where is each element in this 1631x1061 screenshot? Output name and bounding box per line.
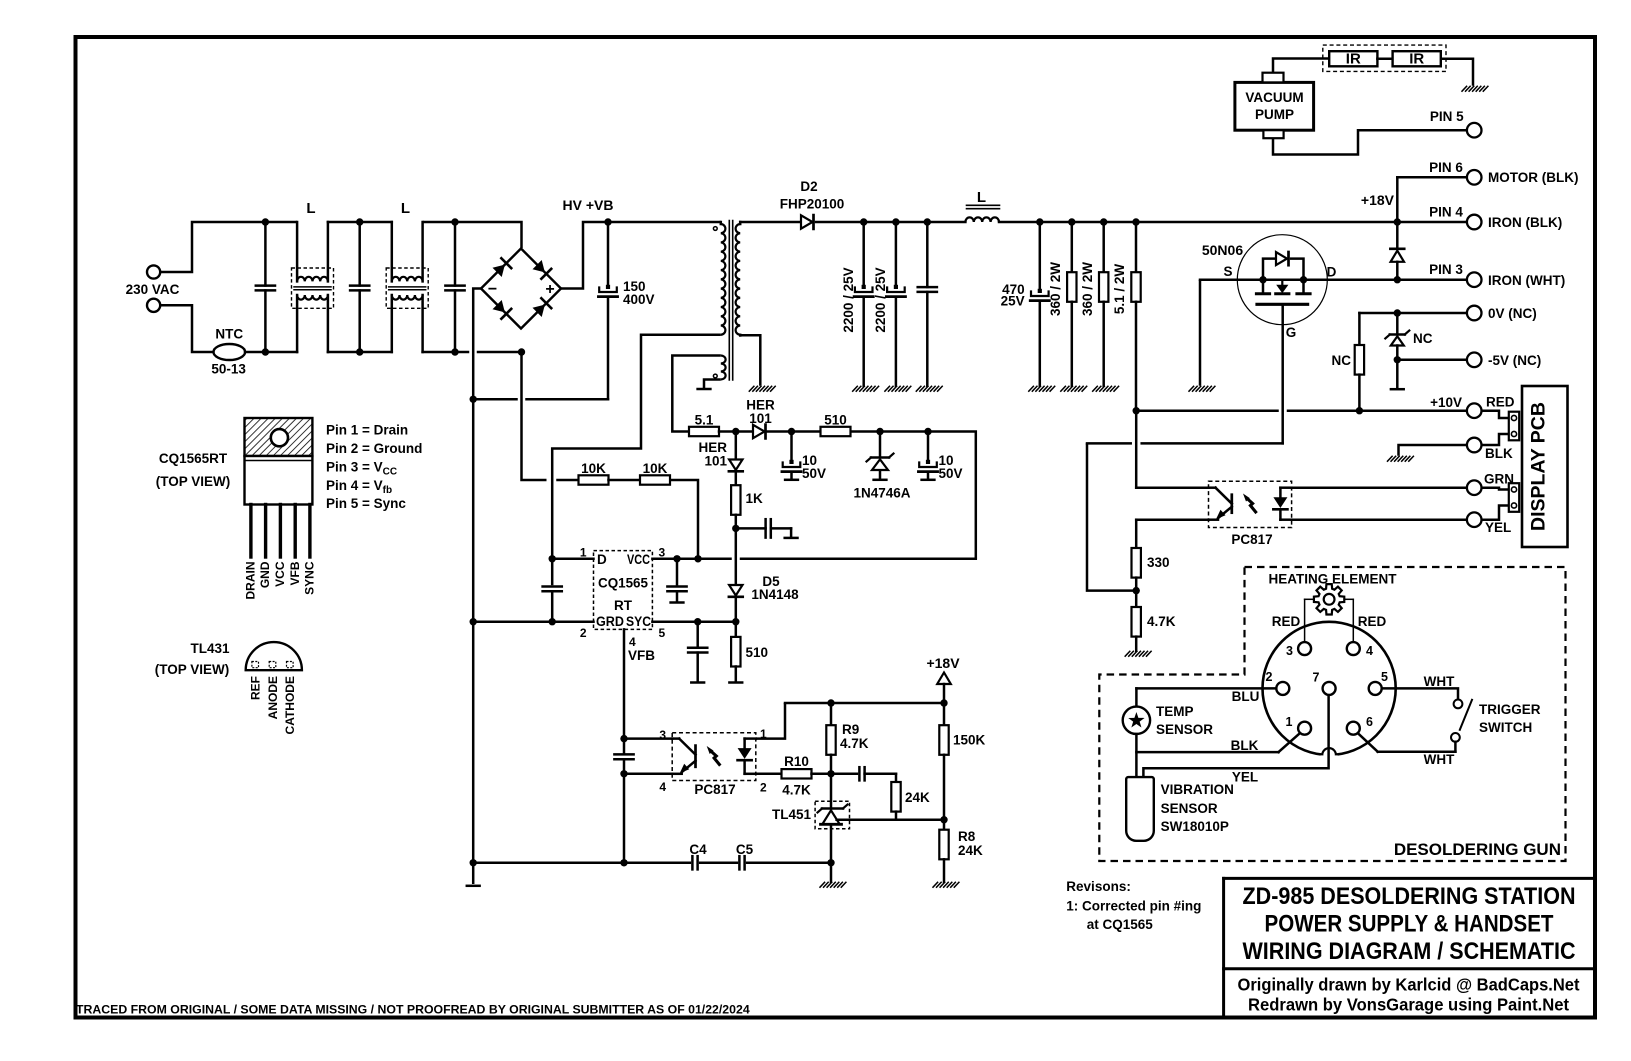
label HER 101 horizontal	[746, 398, 775, 427]
label CQ1565RT TOP VIEW	[156, 451, 231, 489]
wire L to 18V node	[999, 218, 1401, 225]
ground 2200 second	[885, 386, 911, 391]
svg-text:2: 2	[1266, 670, 1273, 684]
vacuum pump box	[1235, 82, 1314, 130]
label PIN 6	[1429, 160, 1463, 175]
label 360 2W first	[1048, 262, 1063, 316]
wire secondary top to D2	[740, 221, 801, 224]
svg-text:L: L	[401, 200, 410, 217]
terminal 0V	[1467, 306, 1482, 321]
label D5 1N4148	[751, 574, 799, 602]
wire bridge plus to HV rail	[561, 218, 721, 288]
wire 510 to Vcc corner	[851, 428, 976, 559]
svg-text:PIN 6: PIN 6	[1429, 160, 1463, 175]
resistor 10K first	[579, 475, 609, 484]
wire BLK jog	[1482, 434, 1509, 445]
wire BLK temp sensor to pin1	[1136, 733, 1299, 777]
terminal PIN4	[1467, 215, 1482, 230]
wire bridge minus down	[470, 289, 482, 885]
svg-text:4.7K: 4.7K	[782, 783, 811, 798]
MOSFET body diode	[1263, 252, 1304, 280]
gun pin 7	[1323, 682, 1336, 695]
resistor 330	[1132, 548, 1141, 591]
label TEMP SENSOR	[1156, 704, 1213, 737]
svg-text:50-13: 50-13	[211, 362, 246, 377]
svg-text:NC: NC	[1413, 331, 1433, 346]
svg-text:VCC: VCC	[273, 561, 287, 587]
svg-text:FHP20100: FHP20100	[780, 197, 845, 212]
label PC817 controller side	[694, 782, 735, 797]
svg-text:0V (NC): 0V (NC)	[1488, 306, 1537, 321]
ground stub cap10 first	[785, 479, 798, 482]
svg-text:PIN 3: PIN 3	[1429, 262, 1463, 277]
wire bottom rail segment 2	[328, 351, 392, 354]
wire GRD pin2	[473, 620, 593, 623]
svg-text:VFB: VFB	[288, 561, 302, 585]
svg-text:PIN 4: PIN 4	[1429, 205, 1463, 220]
label D2	[800, 179, 817, 194]
CQ1565RT package tab	[245, 418, 313, 456]
capacitor 10 50V second	[918, 432, 937, 479]
label NC zener	[1413, 331, 1433, 346]
diode HER101 horizontal	[753, 425, 766, 439]
resistor 360 2W first	[1067, 222, 1076, 386]
TL431 pin labels	[249, 676, 298, 734]
label 24K comp	[905, 790, 930, 805]
svg-text:HV +VB: HV +VB	[563, 197, 614, 213]
capacitor 2200 25V first	[854, 222, 873, 386]
label 360 2W second	[1080, 262, 1095, 316]
capacitor 2200 25V second	[886, 222, 905, 386]
svg-text:VFB: VFB	[628, 648, 655, 663]
wire WHT pin5 to switch	[1382, 688, 1458, 699]
terminal PIN3	[1467, 272, 1482, 287]
label 0V NC	[1488, 306, 1537, 321]
label HEATING ELEMENT	[1269, 572, 1398, 587]
label 330	[1147, 555, 1170, 570]
terminal +10V RED	[1467, 403, 1482, 418]
transformer secondary winding	[736, 222, 741, 336]
transformer core	[729, 221, 732, 381]
svg-text:1: Corrected pin #ing: 1: Corrected pin #ing	[1066, 899, 1201, 914]
wire between IR	[1377, 57, 1392, 60]
svg-text:D2: D2	[800, 179, 817, 194]
label D	[1327, 265, 1337, 280]
connector block GRN YEL	[1509, 483, 1519, 512]
svg-text:REF: REF	[249, 676, 263, 700]
svg-text:RED: RED	[1358, 614, 1387, 629]
ground 470	[1029, 386, 1055, 391]
resistor 10K second	[640, 475, 670, 484]
wire drain pin1	[549, 555, 594, 562]
svg-text:(TOP VIEW): (TOP VIEW)	[155, 662, 230, 677]
wire top rail segment 3 to bridge top	[423, 222, 522, 248]
wire D2 to L	[816, 218, 965, 225]
svg-text:Revisons:: Revisons:	[1066, 879, 1131, 894]
label IR second	[1409, 51, 1424, 68]
svg-text:4: 4	[629, 635, 636, 649]
svg-text:−: −	[488, 281, 497, 298]
svg-text:SWITCH: SWITCH	[1479, 720, 1532, 735]
label HV +VB	[563, 197, 614, 213]
svg-text:5: 5	[659, 626, 666, 640]
svg-text:L: L	[306, 200, 315, 217]
svg-text:510: 510	[746, 645, 769, 660]
label 5.1	[695, 413, 714, 428]
wire HER101 to 510	[766, 428, 821, 435]
label WHT top	[1424, 674, 1455, 689]
wire pump to IR	[1273, 59, 1329, 73]
svg-text:D: D	[1327, 265, 1337, 280]
svg-text:1N4148: 1N4148	[751, 587, 799, 602]
dashed box IR	[1323, 45, 1446, 71]
label 5.1 2W	[1112, 264, 1127, 315]
wire YEL to pin7	[1143, 695, 1328, 777]
label RED	[1486, 395, 1515, 410]
label BLK gun	[1231, 738, 1259, 753]
svg-text:+: +	[545, 281, 554, 298]
capacitor C5	[739, 856, 744, 869]
label +18V right	[1361, 192, 1395, 208]
label 50-13	[211, 362, 246, 377]
svg-text:2200 / 25V: 2200 / 25V	[873, 267, 888, 332]
thermistor NTC 50-13	[214, 344, 246, 360]
resistor 1K	[731, 485, 740, 515]
label VACUUM PUMP	[1245, 90, 1303, 122]
gun connector circle	[1263, 622, 1396, 766]
wire 0V line	[1359, 309, 1467, 316]
wire primary bottom to drain net	[552, 335, 721, 586]
svg-text:R10: R10	[784, 754, 809, 769]
gun pin 6	[1347, 722, 1360, 735]
terminal 230VAC line2	[147, 299, 160, 312]
wire opto2 collector to VFB	[624, 737, 672, 740]
svg-text:230 VAC: 230 VAC	[126, 282, 180, 297]
svg-text:50V: 50V	[802, 466, 826, 481]
capacitor 10 50V first	[782, 432, 801, 479]
resistor R9 4.7K	[826, 703, 835, 774]
label 510 aux	[824, 413, 847, 428]
svg-text:5.1: 5.1	[695, 413, 714, 428]
wire YEL jog	[1482, 506, 1509, 520]
pin list text	[326, 423, 422, 512]
capacitor Vcc snubber horizontal	[736, 519, 791, 537]
label 510 SYC	[746, 645, 769, 660]
IC CQ1565RT dashed box	[594, 551, 653, 630]
svg-text:MOTOR (BLK): MOTOR (BLK)	[1488, 170, 1579, 185]
label IRON BLK	[1488, 215, 1562, 230]
label PIN 5	[1430, 109, 1464, 124]
capacitor comp	[859, 767, 896, 782]
svg-text:PC817: PC817	[1231, 532, 1272, 547]
wire bridge bottom to 10K chain	[522, 352, 547, 480]
label bridge minus	[488, 281, 497, 298]
gun pin 5	[1369, 682, 1382, 695]
svg-text:IRON (BLK): IRON (BLK)	[1488, 215, 1562, 230]
svg-text:NC: NC	[1332, 353, 1352, 368]
wire IR to ground	[1441, 59, 1473, 86]
svg-text:4: 4	[1366, 644, 1373, 658]
resistor 5.1 2W	[1131, 222, 1140, 411]
wire GRN jog	[1482, 488, 1509, 490]
wire 10K chain left	[558, 479, 579, 482]
capacitor SYC	[688, 622, 707, 682]
svg-text:BLK: BLK	[1231, 738, 1259, 753]
IC pin numbers	[580, 546, 666, 641]
svg-text:ZD-985 DESOLDERING STATION: ZD-985 DESOLDERING STATION	[1243, 883, 1576, 910]
temp sensor	[1123, 707, 1150, 734]
label TRIGGER SWITCH	[1479, 702, 1541, 735]
svg-text:DRAIN: DRAIN	[244, 562, 258, 600]
svg-text:PIN 5: PIN 5	[1430, 109, 1464, 124]
wire WHT pin6 to switch	[1359, 734, 1456, 752]
TL431 package	[246, 642, 302, 670]
MOSFET 50N06 body circle	[1237, 235, 1327, 325]
ground stub cap10 second	[922, 479, 935, 482]
transformer primary winding	[713, 222, 725, 335]
ground stub bottom-left	[467, 885, 480, 888]
diode pin4 pin3	[1390, 222, 1404, 280]
pump bottom tab	[1263, 130, 1283, 138]
svg-text:POWER SUPPLY & HANDSET: POWER SUPPLY & HANDSET	[1265, 911, 1554, 938]
label G	[1286, 325, 1297, 340]
wire TL451 to ground	[830, 863, 833, 882]
svg-text:-5V (NC): -5V (NC)	[1488, 353, 1541, 368]
wire AC line2 to NTC	[160, 305, 213, 352]
svg-text:SENSOR: SENSOR	[1161, 801, 1218, 816]
bridge diode top-right	[533, 260, 552, 279]
wire pump to PIN5	[1273, 130, 1467, 154]
label -5V NC	[1488, 353, 1541, 368]
ground stub aux	[698, 388, 711, 391]
label 150K	[953, 733, 986, 748]
svg-text:10K: 10K	[643, 461, 668, 476]
wire SYC pin5	[652, 618, 739, 625]
label YEL	[1485, 520, 1511, 535]
MOSFET source wire to ground	[1199, 280, 1202, 386]
opto2 pin numbers	[659, 727, 767, 795]
vibration sensor body	[1126, 777, 1154, 841]
label RED left	[1272, 614, 1301, 629]
diode D2 FHP20100	[801, 215, 814, 229]
label 1N4746A	[853, 486, 910, 501]
terminal PIN6	[1467, 170, 1482, 185]
svg-text:C5: C5	[736, 842, 754, 857]
label 2200 25V second	[873, 267, 888, 332]
bridge rectifier diamond	[481, 249, 561, 329]
resistor IR first	[1329, 51, 1377, 66]
wire BLU pin2 to temp sensor	[1136, 688, 1276, 706]
svg-text:DESOLDERING GUN: DESOLDERING GUN	[1394, 840, 1561, 859]
svg-text:Redrawn by VonsGarage using Pa: Redrawn by VonsGarage using Paint.Net	[1248, 995, 1569, 1015]
svg-text:330: 330	[1147, 555, 1170, 570]
svg-text:DISPLAY PCB: DISPLAY PCB	[1528, 402, 1550, 531]
svg-text:5.1 / 2W: 5.1 / 2W	[1112, 264, 1127, 315]
svg-text:4.7K: 4.7K	[1147, 614, 1176, 629]
shunt regulator TL451	[815, 774, 849, 867]
heating element gear	[1305, 584, 1354, 642]
wire bottom rail segment 3	[423, 351, 468, 354]
credit text	[1238, 975, 1580, 1015]
svg-text:400V: 400V	[623, 292, 655, 307]
svg-text:IRON (WHT): IRON (WHT)	[1488, 273, 1565, 288]
wire 1K to node	[732, 515, 739, 532]
label DESOLDERING GUN	[1394, 840, 1561, 859]
title block box	[1224, 878, 1594, 1017]
label 10K first	[581, 461, 606, 476]
svg-text:Pin 1 = Drain: Pin 1 = Drain	[326, 423, 408, 438]
capacitor X1	[256, 218, 275, 355]
ground BLK	[1388, 456, 1414, 461]
ground 2200 first	[853, 386, 879, 391]
label 50N06	[1202, 242, 1243, 258]
wire -5V line	[1394, 356, 1467, 363]
svg-text:SYC: SYC	[626, 614, 651, 629]
svg-text:RED: RED	[1272, 614, 1301, 629]
svg-text:2: 2	[580, 626, 587, 640]
svg-text:6: 6	[1366, 715, 1373, 729]
label PIN 3	[1429, 262, 1463, 277]
wire 10V rail	[1133, 407, 1468, 414]
ground 4.7K gate	[1125, 651, 1151, 656]
svg-text:7: 7	[1313, 671, 1320, 685]
ground R8	[933, 882, 959, 887]
terminal GRN	[1467, 480, 1482, 495]
resistor 24K comp	[891, 782, 900, 812]
svg-text:Pin 5 = Sync: Pin 5 = Sync	[326, 496, 406, 511]
stub -5V	[1391, 360, 1404, 389]
label 470 25V	[1001, 282, 1025, 309]
svg-text:CQ1565RT: CQ1565RT	[159, 451, 228, 466]
label 10 50V second	[939, 453, 963, 481]
wire bottom rail jump to bridge bottom	[478, 348, 525, 355]
svg-text:(TOP VIEW): (TOP VIEW)	[156, 474, 231, 489]
wire PIN4 line	[1397, 221, 1467, 224]
common-mode choke L1	[292, 222, 334, 352]
gun pin 2	[1276, 682, 1289, 695]
label NC resistor	[1332, 353, 1352, 368]
ground 360 second	[1093, 386, 1119, 391]
label VIBRATION SENSOR SW18010P	[1161, 782, 1234, 834]
label pin4 VFB	[628, 635, 655, 663]
svg-text:D: D	[597, 552, 607, 567]
svg-text:Pin 2 = Ground: Pin 2 = Ground	[326, 441, 422, 456]
wire 18V vertical	[1396, 177, 1399, 222]
diode HER101 vertical	[729, 432, 743, 486]
svg-text:SENSOR: SENSOR	[1156, 722, 1213, 737]
svg-text:WIRING DIAGRAM / SCHEMATIC: WIRING DIAGRAM / SCHEMATIC	[1243, 938, 1576, 965]
svg-text:101: 101	[704, 454, 727, 469]
transformer aux winding	[713, 356, 725, 380]
svg-text:2: 2	[760, 781, 767, 795]
ground 360 first	[1061, 386, 1087, 391]
label PC817 display side	[1231, 532, 1272, 547]
svg-text:PUMP: PUMP	[1255, 107, 1294, 122]
wire gate drive	[1087, 306, 1283, 594]
label DISPLAY PCB	[1528, 402, 1550, 531]
label IR first	[1346, 51, 1361, 68]
wire 18V rail	[785, 699, 948, 706]
svg-text:NTC: NTC	[215, 327, 243, 342]
wire opto2 LED anode to 18V rail	[756, 703, 785, 739]
ground stub 510	[729, 681, 742, 684]
resistor 510 aux	[821, 427, 851, 436]
label R10	[784, 754, 809, 769]
label S	[1223, 264, 1232, 279]
label R10 value	[782, 783, 811, 798]
svg-text:TL431: TL431	[190, 641, 230, 656]
MOSFET channel	[1256, 280, 1310, 294]
wire 10K chain to VCC node	[670, 480, 698, 559]
resistor IR second	[1393, 51, 1441, 66]
desoldering gun dashed outline	[1099, 567, 1565, 861]
IC pin texts	[596, 552, 651, 629]
svg-text:VCC: VCC	[627, 552, 650, 567]
label HER 101 vertical	[698, 440, 727, 469]
label 4.7K gate	[1147, 614, 1176, 629]
label RED right	[1358, 614, 1387, 629]
wire ground rail C4 C5	[473, 862, 831, 865]
svg-text:S: S	[1223, 264, 1232, 279]
capacitor C4	[692, 856, 697, 869]
svg-text:4: 4	[659, 780, 666, 794]
label bridge plus	[545, 281, 554, 298]
ground MOSFET source	[1189, 386, 1215, 391]
svg-text:L: L	[977, 189, 986, 206]
svg-text:TEMP: TEMP	[1156, 704, 1194, 719]
display PCB box	[1522, 386, 1568, 547]
resistor 150K	[939, 703, 948, 820]
zener 1N4746A	[867, 432, 894, 479]
svg-text:Originally drawn by Karlcid @: Originally drawn by Karlcid @ BadCaps.Ne…	[1238, 975, 1580, 995]
inductor L output	[965, 205, 999, 222]
terminal -5V	[1467, 353, 1482, 368]
capacitor X2	[350, 218, 369, 355]
label +10V	[1430, 395, 1462, 410]
wire GRN line	[1292, 486, 1467, 489]
svg-text:25V: 25V	[1001, 294, 1025, 309]
ground ceramic mid	[916, 386, 942, 391]
resistor R10 4.7K	[782, 769, 812, 778]
bridge diode bottom-right	[533, 298, 552, 317]
MOSFET gate bar	[1257, 303, 1308, 306]
svg-text:101: 101	[749, 411, 772, 426]
gun pin numbers	[1266, 644, 1388, 729]
common-mode choke L2	[386, 222, 428, 352]
label +18V	[926, 655, 960, 671]
svg-text:R8: R8	[958, 829, 976, 844]
resistor R8 24K	[939, 820, 948, 882]
svg-text:4.7K: 4.7K	[840, 736, 869, 751]
wire between 10K resistors	[609, 479, 641, 482]
svg-text:1K: 1K	[746, 491, 764, 506]
svg-text:GRD: GRD	[596, 614, 624, 629]
gun pin 3	[1298, 642, 1311, 655]
bridge diode bottom-left	[493, 300, 512, 319]
capacitor across opto2	[614, 739, 633, 774]
label MOTOR BLK	[1488, 170, 1579, 185]
svg-text:1: 1	[580, 546, 587, 560]
svg-text:TRACED FROM ORIGINAL / SOME DA: TRACED FROM ORIGINAL / SOME DATA MISSING…	[76, 1003, 750, 1017]
wire opto2 emitter	[620, 770, 672, 777]
svg-text:BLU: BLU	[1232, 689, 1260, 704]
wire BLK to ground	[1399, 445, 1468, 456]
wire RED jog	[1482, 411, 1509, 418]
label L choke2	[401, 200, 410, 217]
svg-text:1: 1	[1286, 715, 1293, 729]
wire secondary bottom to ground	[740, 335, 760, 386]
label PIN 4	[1429, 205, 1463, 220]
